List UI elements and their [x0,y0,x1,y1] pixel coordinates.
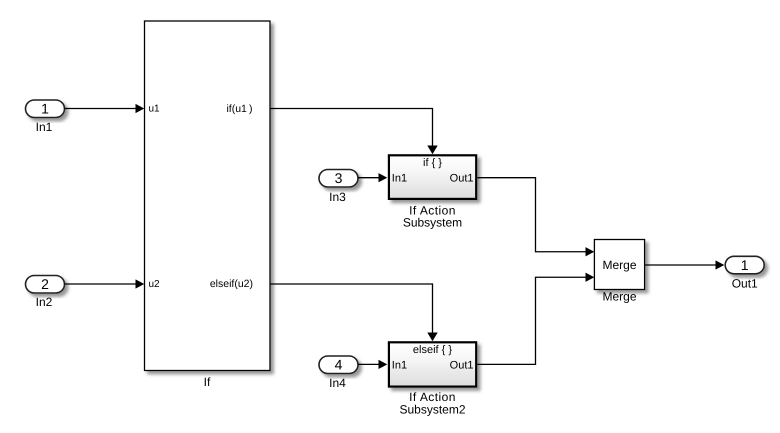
wire Merge to Out1 [645,264,717,266]
svg-text:In2: In2 [36,295,53,309]
wire In3 to subsystem [358,177,380,179]
If block [145,21,271,371]
wire elseif(u2) to If Action Subsystem2 [270,284,433,334]
If Action Subsystem2 block U2 [389,342,476,386]
svg-text:2: 2 [41,276,49,292]
svg-text:4: 4 [335,357,343,373]
wire In4 to subsystem2 [358,363,380,365]
svg-text:Out1: Out1 [450,173,474,185]
svg-text:1: 1 [41,101,49,117]
inport block In4 [319,356,358,374]
svg-text:In4: In4 [329,376,346,390]
svg-text:elseif { }: elseif { } [413,344,452,356]
wire Subsystem Out1 to Merge port1 [477,178,587,252]
svg-text:If: If [204,375,211,389]
inport block In3 [319,170,358,188]
wire In1 to If [65,108,138,110]
svg-text:elseif(u2): elseif(u2) [210,278,253,290]
svg-text:u2: u2 [149,279,161,290]
outport block Out1 [725,256,764,274]
svg-text:3: 3 [335,170,343,186]
svg-text:In1: In1 [392,173,407,185]
svg-text:In1: In1 [392,359,407,371]
svg-text:if(u1 ): if(u1 ) [226,103,252,115]
svg-text:Subsystem: Subsystem [403,216,462,230]
wire if(u1) to If Action Subsystem [270,109,433,147]
svg-text:In3: In3 [329,190,346,204]
wire Subsystem2 Out1 to Merge port2 [477,277,587,364]
svg-text:u1: u1 [149,104,161,115]
inport block In2 [26,276,65,294]
svg-text:Merge: Merge [602,290,636,304]
svg-text:Subsystem2: Subsystem2 [399,403,465,417]
inport block In1 [26,100,65,118]
svg-text:Out1: Out1 [732,277,758,291]
wire In2 to If [65,283,138,285]
svg-text:Out1: Out1 [450,359,474,371]
svg-text:In1: In1 [36,120,53,134]
Merge block [594,240,644,290]
svg-text:Merge: Merge [602,258,636,272]
If Action Subsystem block U1 [389,155,476,199]
svg-text:1: 1 [741,257,749,273]
svg-text:if { }: if { } [423,157,442,169]
